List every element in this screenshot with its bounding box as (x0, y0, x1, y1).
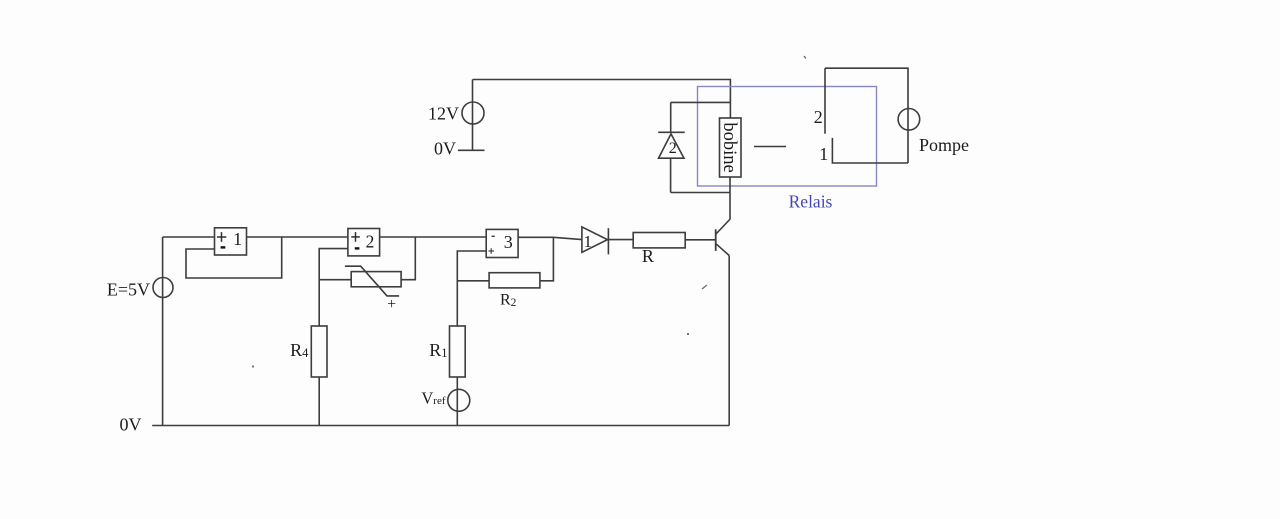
motor Pompe circle (898, 109, 920, 131)
svg-text:+: + (387, 296, 396, 313)
relay contact 2 (824, 68, 826, 134)
relay box (Relais) (698, 87, 877, 187)
wire: coil bottom to transistor collector (729, 177, 731, 220)
op-amp block U3 (486, 229, 518, 257)
svg-text:12V: 12V (428, 104, 459, 124)
stray dot left (252, 366, 254, 368)
svg-text:Pompe: Pompe (919, 135, 969, 155)
wire: diode 1 to R (608, 239, 633, 241)
svg-text:0V: 0V (120, 415, 142, 435)
stray mark near transistor (702, 285, 707, 289)
svg-text:bobine: bobine (719, 122, 739, 172)
wire: block 1 feedback loop (186, 237, 282, 278)
wire: R1 to Vref to 0V rail (456, 377, 458, 426)
wire: E source vertical (162, 237, 164, 426)
svg-text:2: 2 (669, 140, 677, 157)
wire: block 2 output to block 3 (380, 236, 487, 238)
voltage source 12V circle (462, 102, 484, 124)
wire: diode D2 bottom branch (671, 192, 731, 194)
wire: block 2 inverting input branch (319, 249, 348, 326)
relay armature dash (754, 146, 786, 148)
svg-text:3: 3 (504, 232, 513, 252)
thermistor RT (345, 266, 401, 313)
wire: R to transistor base (685, 239, 716, 241)
svg-text:2: 2 (366, 231, 375, 251)
svg-text:R: R (642, 246, 654, 266)
wire: R4 bottom to 0V rail (318, 377, 320, 426)
op-amp block U1 (215, 228, 247, 255)
wire: branch to thermistor (319, 279, 351, 281)
wire: thermistor to block 2 output (401, 237, 415, 280)
wire: pump loop top (825, 68, 908, 163)
svg-text:1: 1 (584, 232, 593, 251)
resistor R4 (290, 326, 327, 377)
stray mark top (804, 56, 806, 58)
wire: block 3 output to diode 1 (518, 237, 582, 239)
svg-text:2: 2 (814, 107, 823, 127)
0V rail (152, 425, 729, 427)
stray dot mid (687, 333, 689, 335)
transistor Q1 (716, 220, 730, 256)
svg-text:1: 1 (233, 229, 242, 249)
wire: emitter to 0V rail (728, 256, 730, 426)
diode D2 (freewheel) (658, 102, 685, 192)
resistor R1 (429, 326, 465, 377)
voltage source E circle (153, 278, 173, 298)
wire: diode D2 top branch (671, 101, 731, 103)
wire: 12V rail to relay coil (473, 80, 731, 119)
node 0V tick (12V source) (458, 149, 485, 151)
wire: R2 to block 3 output (540, 237, 554, 280)
diode D1 (582, 227, 609, 255)
wire: block 1 output to block 2 (247, 236, 349, 238)
svg-text:0V: 0V (434, 139, 456, 159)
resistor R (633, 233, 685, 266)
resistor R2 (489, 273, 540, 309)
svg-text:1: 1 (819, 144, 828, 164)
op-amp block U2 (348, 229, 380, 256)
svg-text:E=5V: E=5V (107, 280, 150, 300)
relay contact 1 (832, 138, 908, 163)
wire: block 3 plus input branch (457, 251, 486, 326)
wire: branch to R2 (457, 280, 489, 282)
wire: 12V source vertical (472, 80, 474, 151)
coil bobine (719, 118, 741, 177)
svg-text:Relais: Relais (789, 192, 833, 212)
wire: E to block 1 input (163, 236, 215, 238)
voltage source Vref circle (448, 389, 470, 411)
